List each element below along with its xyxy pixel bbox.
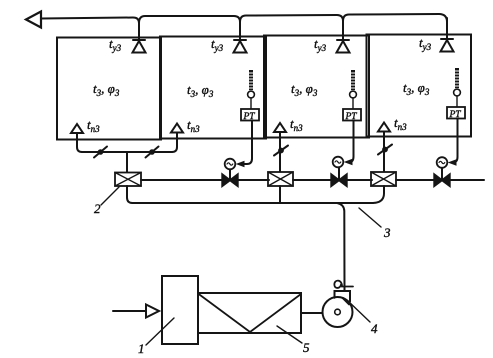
thermometer zone3	[350, 70, 357, 98]
wire hot pipe segment 4	[347, 179, 373, 181]
wire header right end up to mixer zone4	[373, 186, 384, 203]
svg-text:5: 5	[303, 340, 310, 355]
svg-text:4: 4	[371, 321, 378, 336]
zone box 1	[57, 38, 161, 140]
svg-text:tп3: tп3	[187, 117, 200, 134]
leader for label 3	[359, 208, 381, 227]
supply grille t_n3 zone1	[71, 124, 83, 133]
wire thermometer to PT zone3	[352, 98, 354, 109]
wire hot pipe segment 5	[396, 179, 435, 181]
supply grille t_n3 zone2	[171, 124, 183, 133]
zone box 4	[367, 35, 472, 137]
zone box 3	[264, 36, 369, 138]
svg-text:t3, φ3: t3, φ3	[187, 82, 214, 99]
mixer 2 (crossed box)	[115, 173, 141, 187]
svg-text:tу3: tу3	[314, 36, 327, 53]
svg-text:t3, φ3: t3, φ3	[93, 81, 120, 98]
wire mixer zone3 to header	[279, 186, 281, 203]
svg-text:РТ: РТ	[243, 112, 256, 122]
svg-text:2: 2	[94, 201, 101, 216]
wire t_n3 zone3 down	[279, 132, 281, 172]
mixer under zone4	[371, 172, 396, 186]
thermometer zone4	[454, 68, 461, 96]
exhaust grille zone1	[133, 40, 146, 53]
wire mixer2 down to supply header	[127, 186, 133, 203]
damper zone3	[274, 146, 288, 156]
wire header branch down to fan	[338, 203, 345, 291]
wire t_n3 zone2 down	[172, 133, 177, 153]
inlet air arrow	[113, 310, 146, 312]
damper zone4	[378, 145, 392, 155]
arrowhead into motor C	[448, 159, 457, 165]
wire PT zone2 to motor A	[241, 121, 252, 164]
wire riser zone1	[138, 20, 140, 43]
exhaust grille zone2	[234, 40, 247, 53]
wire hot pipe segment 2	[238, 179, 270, 181]
mixer under zone3	[268, 172, 293, 186]
svg-text:РТ: РТ	[449, 110, 462, 120]
wire heater to fan	[301, 312, 323, 314]
wire PT zone4 to motor C	[452, 119, 458, 163]
exhaust grille zone3	[337, 40, 350, 53]
regulator PT zone2	[241, 109, 259, 122]
svg-text:tп3: tп3	[394, 115, 407, 132]
wire t_n3 zone1 down	[77, 133, 82, 152]
leader for label 1	[146, 318, 174, 345]
wire riser zone3	[342, 19, 344, 43]
damper on collector left	[94, 147, 107, 158]
wire exhaust header riser2-riser3	[240, 15, 343, 22]
wire riser zone2	[239, 20, 241, 43]
arrowhead into motor A	[236, 161, 245, 167]
svg-text:1: 1	[138, 341, 145, 356]
exhaust grille zone4	[441, 39, 454, 52]
regulator PT zone4	[447, 107, 465, 120]
svg-text:t3, φ3: t3, φ3	[291, 81, 318, 98]
heater 5	[198, 293, 301, 333]
damper on collector right	[146, 147, 159, 158]
zone box 2	[160, 37, 266, 139]
supply grille t_n3 zone3	[274, 123, 286, 132]
wire thermometer to PT zone2	[250, 98, 252, 109]
valve A	[222, 170, 237, 187]
svg-text:tп3: tп3	[290, 116, 303, 133]
wire thermometer to PT zone4	[456, 96, 458, 107]
wire collector to mixer	[126, 152, 128, 172]
intake section 1	[162, 276, 198, 344]
wire hot pipe segment 6	[450, 179, 485, 181]
valve C	[434, 168, 449, 186]
actuator motor A	[225, 159, 236, 170]
wire PT zone3 to motor B	[348, 121, 354, 162]
leader for label 5	[277, 326, 302, 343]
svg-text:3: 3	[383, 225, 391, 240]
svg-text:tу3: tу3	[419, 35, 432, 52]
exhaust outlet arrow (top left)	[26, 12, 41, 28]
supply grille t_n3 zone4	[378, 123, 390, 132]
wire riser zone4	[446, 18, 448, 42]
wire exhaust header from arrow to riser 1	[41, 18, 139, 24]
svg-text:РТ: РТ	[345, 112, 358, 122]
actuator motor C	[437, 157, 448, 168]
svg-text:t3, φ3: t3, φ3	[403, 80, 430, 97]
valve B	[331, 168, 346, 187]
supply header 3	[133, 202, 374, 204]
leader for label 2	[101, 187, 119, 205]
wire exhaust header riser1-riser2	[139, 16, 240, 23]
wire t_n3 zone4 down	[383, 132, 385, 173]
arrowhead into motor B	[344, 159, 353, 165]
svg-text:tу3: tу3	[109, 36, 122, 53]
fan 4	[323, 281, 354, 327]
leader for label 4	[347, 300, 370, 322]
wire exhaust header riser3-riser4	[343, 14, 447, 22]
wire hot pipe segment 3	[293, 179, 332, 181]
thermometer zone2	[248, 70, 255, 98]
svg-text:tу3: tу3	[211, 36, 224, 53]
wire collector zones 1+2	[82, 151, 172, 153]
regulator PT zone3	[343, 109, 361, 122]
actuator motor B	[333, 157, 344, 168]
wire hot pipe segment 1	[141, 179, 223, 181]
svg-text:tп3: tп3	[87, 117, 100, 134]
